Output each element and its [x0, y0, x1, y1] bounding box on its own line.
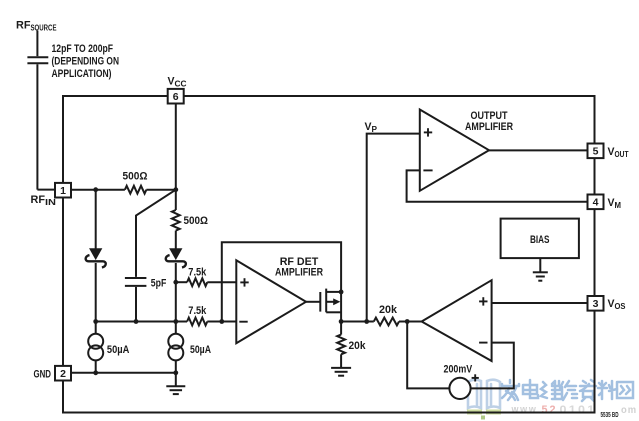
label RF DET AMPLIFIER [275, 256, 323, 279]
schottky diode D1 [86, 249, 106, 268]
op-amp U2 output amplifier [420, 110, 489, 191]
wire: VM feedback to pin 4 [407, 170, 588, 201]
svg-text:20k: 20k [349, 340, 367, 352]
wire: V1 to output node [407, 322, 449, 389]
label VP [365, 121, 378, 134]
junction: gnd rail I1 [93, 370, 98, 375]
wire: VCC pin to divider node [175, 96, 177, 190]
svg-text:6: 6 [173, 91, 179, 103]
svg-text:500Ω: 500Ω [123, 171, 148, 183]
label: 12pF TO 200pF (DEPENDING ON APPLICATION) [52, 43, 120, 80]
resistor R5 20k [374, 318, 399, 326]
svg-text:20k: 20k [379, 304, 398, 316]
svg-text:4: 4 [593, 197, 599, 209]
resistor R2 500Ω vertical [172, 190, 180, 249]
svg-text:500Ω: 500Ω [184, 215, 209, 227]
wire: U2 output to pin 5 [489, 149, 588, 151]
BIAS block [501, 219, 579, 259]
wire: U3 plus input to pin 3 [492, 302, 588, 304]
svg-text:0101: 0101 [560, 404, 597, 416]
wire: U3 minus input loop [471, 343, 514, 389]
resistor R1 500Ω [125, 186, 176, 194]
svg-text:2: 2 [60, 368, 66, 380]
wire: VP sense line [367, 134, 420, 322]
wire: feedback loop to minus input [222, 242, 341, 321]
svg-text:APPLICATION): APPLICATION) [52, 68, 112, 80]
capacitor C2 5pF [125, 278, 146, 322]
label VCC [168, 76, 187, 89]
schottky diode D2 [166, 249, 186, 268]
svg-text:www: www [511, 404, 538, 416]
svg-text:50µA: 50µA [107, 344, 130, 356]
svg-text:7.5k: 7.5k [188, 266, 207, 278]
svg-text:(DEPENDING ON: (DEPENDING ON [52, 56, 120, 68]
label 500Ω [184, 215, 209, 227]
svg-text:AMPLIFIER: AMPLIFIER [275, 267, 323, 279]
wire: ground rail [71, 372, 176, 374]
label 20k [349, 340, 367, 352]
svg-text:50µA: 50µA [190, 344, 211, 356]
junction: rail at D2 [173, 319, 178, 324]
wire: node B diagonal to 5pF [136, 190, 176, 277]
svg-text:5535 BD: 5535 BD [601, 412, 619, 419]
wire: VCC top rail [62, 95, 596, 97]
label 200mV [444, 364, 473, 376]
node B junction [173, 187, 178, 192]
label GND [34, 369, 52, 381]
label 7.5k [188, 305, 207, 317]
label 7.5k [188, 266, 207, 278]
junction: feedback at minus rail [219, 319, 224, 324]
pin 3 [588, 296, 604, 311]
wire: pin1 to node A [71, 189, 125, 191]
wire: RF source line [37, 31, 55, 190]
pin 1 [55, 183, 71, 198]
svg-text:AMPLIFIER: AMPLIFIER [465, 121, 513, 133]
junction: rail at D1 [93, 319, 98, 324]
ground symbol under R6 [331, 368, 351, 376]
label VM [608, 197, 622, 210]
label OUTPUT AMPLIFIER [465, 110, 513, 133]
svg-text:7.5k: 7.5k [188, 305, 207, 317]
svg-text:5pF: 5pF [151, 277, 167, 289]
label 50µA [107, 344, 130, 356]
junction: node at VP [364, 319, 369, 324]
wire: left boundary [62, 95, 64, 414]
label 50µA [190, 344, 211, 356]
wire: right boundary [594, 95, 596, 414]
label RF_IN [31, 194, 57, 207]
pin 4 [588, 195, 604, 210]
wire: D1 cathode to rail [95, 263, 97, 334]
svg-text:200mV: 200mV [444, 364, 473, 376]
resistor R6 20k to ground [337, 322, 345, 368]
junction: node at Q1 source [339, 319, 344, 324]
node A junction [93, 187, 98, 192]
svg-text:12pF TO 200pF: 12pF TO 200pF [52, 43, 114, 55]
label RF_SOURCE [16, 20, 57, 33]
junction: D2/R3 tap [173, 280, 178, 285]
svg-text:1: 1 [60, 185, 66, 197]
wire: detector output node rail [341, 321, 422, 323]
label VOUT [608, 146, 629, 159]
label 500Ω [123, 171, 148, 183]
svg-text:3: 3 [593, 298, 599, 310]
op-amp U1 RF DET amplifier [236, 260, 306, 343]
ground symbol under BIAS [533, 258, 548, 281]
transistor Q1 MOSFET [306, 289, 341, 322]
junction: node at error amp [405, 319, 410, 324]
junction: Q1 drain [339, 290, 344, 295]
pin 5 [588, 144, 604, 159]
pin 6 [168, 89, 184, 104]
svg-text:GND: GND [34, 369, 52, 381]
resistor R4 7.5k [187, 318, 207, 326]
op-amp U3 gain-set amplifier [422, 280, 492, 361]
wire: plus input tap [176, 281, 237, 283]
current source I1 50µA [88, 334, 103, 373]
wire: bottom rail [62, 412, 596, 414]
voltage source V1 200mV [449, 374, 478, 399]
label VOS [608, 298, 627, 311]
pin 2 [55, 366, 71, 381]
svg-text:52: 52 [542, 404, 558, 416]
junction: gnd rail I2 [173, 370, 178, 375]
label 5pF [151, 277, 167, 289]
resistor R3 7.5k [187, 278, 207, 286]
wire: node A down to D1 [95, 190, 97, 249]
label 20k [379, 304, 398, 316]
svg-text:BIAS: BIAS [530, 234, 550, 246]
junction: rail at C2 [134, 319, 139, 324]
svg-text:om: om [621, 405, 637, 416]
capacitor C1 input coupling [27, 57, 48, 63]
wire: lower rail (minus input net) [96, 321, 237, 323]
svg-text:5: 5 [593, 146, 599, 158]
wire: D2 cathode to lower rail [175, 263, 177, 334]
current source I2 50µA [168, 334, 183, 373]
ground symbol under I2 [166, 373, 185, 394]
